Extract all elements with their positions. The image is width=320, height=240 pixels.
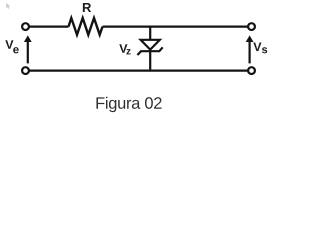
arrow Ve [24,35,32,63]
wire top-left segment [29,26,68,28]
wire bottom rail [29,69,248,71]
cursor artifact [6,3,10,9]
label Vs [253,43,267,54]
label Vz [119,44,130,54]
arrow Vs [246,35,254,63]
terminal bottom-left [22,67,29,74]
label R [83,3,91,12]
zener diode Vz [137,27,162,71]
resistor R [69,18,103,35]
label Ve [5,40,18,53]
wire top-right segment [103,26,248,28]
terminal bottom-right [248,67,255,74]
caption Figura 02 [96,97,161,112]
terminal top-left [22,23,29,30]
terminal top-right [248,23,255,30]
